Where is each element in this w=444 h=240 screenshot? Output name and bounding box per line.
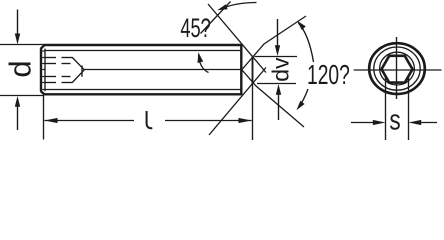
wire chamfer inner edge	[44, 49, 46, 92]
node 120 deg arc arrow upper	[297, 21, 314, 62]
end view vertical centerline	[396, 37, 398, 99]
node d dimension arrow down	[15, 10, 20, 45]
node label 45deg	[180, 13, 210, 43]
wire dv bottom extension line	[257, 83, 296, 85]
node 120 deg arc arrow lower	[296, 89, 308, 110]
node d dimension arrow up	[15, 96, 20, 130]
wire 120 deg construction line upper right	[242, 16, 306, 70]
wire l right extension line	[252, 57, 254, 140]
wire dimension d bottom extension line	[0, 95, 44, 97]
end view outer circle	[369, 43, 425, 94]
hex socket hidden line bottom outer	[46, 82, 73, 84]
hex socket hidden line top outer	[46, 57, 73, 59]
node label d	[2, 60, 37, 77]
wire centerline	[84, 69, 242, 71]
node s arrow left	[351, 120, 386, 125]
svg-text:120?: 120?	[307, 61, 350, 91]
svg-text:45?: 45?	[180, 13, 210, 43]
wire 45 deg construction line upper (through top cone edge)	[208, 4, 266, 73]
wire dv top extension line	[255, 56, 298, 58]
cone point flat	[252, 57, 254, 84]
node label s	[389, 103, 400, 136]
node label l	[147, 111, 153, 128]
hex socket cone V	[72, 58, 84, 83]
screw body outline	[41, 44, 242, 95]
node label 120deg	[307, 61, 350, 91]
wire thread root bottom	[46, 89, 241, 91]
wire s left extension line	[385, 77, 387, 140]
end view thread circle	[374, 47, 420, 90]
hex socket hidden line top inner	[46, 63, 71, 65]
node l dimension line with arrows	[45, 118, 252, 123]
svg-text:s: s	[389, 103, 400, 136]
node 45 deg X mark stroke	[201, 2, 231, 34]
end view horizontal centerline	[354, 69, 442, 71]
node drill center tick	[81, 66, 83, 77]
wire dimension d top extension line	[0, 44, 45, 46]
node 45 leader curved arrow to thread root	[198, 52, 209, 72]
wire thread root top	[46, 50, 241, 52]
end view chamfer circle	[380, 52, 415, 85]
wire 120 deg construction line lower right	[242, 70, 304, 127]
hex socket hexagon	[382, 56, 413, 83]
hex socket hidden line bottom inner	[46, 76, 71, 78]
node dv arrow down	[275, 19, 280, 56]
wire l left extension line	[43, 96, 45, 140]
wire 45 deg construction line lower (through bottom cone edge)	[209, 68, 266, 136]
wire s right extension line	[408, 77, 410, 140]
node 45 leader curved arrow to X	[217, 3, 256, 11]
svg-text:d: d	[2, 60, 37, 77]
node thread runout ticks on chamfer	[42, 51, 45, 90]
svg-text:dv: dv	[268, 57, 294, 82]
node s arrow right	[409, 120, 438, 125]
node dv arrow up	[276, 84, 281, 120]
node label dv	[268, 57, 294, 82]
